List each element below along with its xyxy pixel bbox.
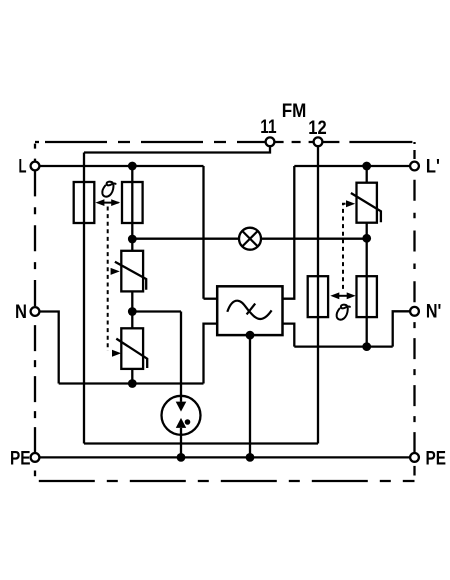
- thermal coupling dashed line right: [343, 204, 346, 292]
- varistor V1 stub bottom: [131, 291, 133, 311]
- thermal disconnect symbol left: theta label: [102, 182, 115, 197]
- fuse F2 body: [122, 182, 143, 223]
- varistor V2 diagonal stroke: [116, 339, 147, 368]
- terminal N': [410, 307, 419, 316]
- enclosure border left segment (PE to N): [34, 316, 36, 453]
- svg-text:L: L: [19, 157, 27, 178]
- fuse F4r through-line: [366, 276, 368, 317]
- wire vertical drop from L line to filter upper-left stub: [202, 166, 204, 299]
- enclosure border right segment (PE to bottom-right corner): [413, 466, 415, 476]
- varistor V1 body: [121, 251, 143, 292]
- wire from terminal 11 down and left to fuse F1: [84, 146, 270, 153]
- node junction dot on PE line at spark gap: [177, 453, 186, 462]
- wire lamp line from F2-bottom node to varistor VR node: [132, 238, 366, 240]
- wire fuse F1 feed down: [83, 153, 85, 183]
- wire fuse F4r bottom to N' rail: [366, 317, 368, 347]
- svg-text:N': N': [426, 302, 442, 323]
- wire riser from N rail up to filter lower-left stub: [204, 324, 218, 384]
- wire gas discharge tube bottom to PE line: [180, 435, 182, 458]
- svg-text:L': L': [426, 157, 440, 178]
- mains filter box: [217, 286, 282, 335]
- enclosure border right segment (N' to PE): [413, 316, 415, 453]
- enclosure border right segment (L' to N'): [413, 180, 415, 307]
- wire down to gas discharge tube top: [180, 312, 182, 396]
- node junction dot on L' wire at varistor VR: [362, 162, 371, 171]
- enclosure border bottom segment: [39, 480, 415, 482]
- wire F3 bottom riser: [317, 317, 319, 443]
- enclosure border top-left tick: [35, 141, 39, 143]
- wire N' input down to N' rail: [393, 311, 410, 346]
- thermal coupling dashed line left: [107, 207, 109, 352]
- terminal PE right: [410, 453, 419, 462]
- wire N' rail to filter lower-right riser: [294, 345, 392, 347]
- wire bottom rail from F1 to F3 (remote-contact loop): [84, 442, 318, 444]
- node junction dot on L wire at fuse F2: [128, 162, 137, 171]
- enclosure border top segment (terminal 12 to top-right corner): [322, 141, 414, 143]
- terminal L': [410, 162, 419, 171]
- wire filter upper-left stub: [204, 298, 218, 300]
- wire varistor VR node down to fuse F4r top: [366, 238, 368, 276]
- wire fuse F1 bottom down to PE-side rail: [83, 223, 85, 444]
- wire N rail to filter lower-left riser: [59, 382, 204, 384]
- enclosure border left segment (L to top-left corner): [34, 142, 36, 162]
- filter sine slash: [247, 304, 256, 315]
- thermal disconnect symbol right: theta label: [337, 305, 350, 320]
- varistor VR stub top: [366, 166, 368, 183]
- enclosure border top segment between terminals 11 and 12: [275, 141, 314, 143]
- varistor VR diagonal stroke: [351, 193, 381, 222]
- wire filter centre tap down to PE line: [249, 335, 251, 457]
- terminal PE left: [31, 453, 40, 462]
- terminal L: [31, 162, 40, 171]
- thermal coupling arrow into varistor V2: [112, 350, 121, 357]
- svg-text:12: 12: [308, 118, 326, 139]
- terminal 12: [314, 137, 323, 146]
- varistor VR stub bottom: [366, 223, 368, 239]
- varistor V2 stub top: [131, 312, 133, 329]
- svg-text:PE: PE: [426, 449, 447, 470]
- svg-text:FM: FM: [282, 101, 307, 122]
- fuse F2 through-line: [131, 182, 133, 223]
- svg-text:PE: PE: [10, 449, 31, 470]
- enclosure border top segment (corner to terminal 11): [45, 141, 266, 143]
- indicator lamp H1: [239, 228, 261, 250]
- wire L' input line to filter drop: [294, 165, 410, 167]
- wire fuse F2 bottom to lamp node: [131, 223, 133, 239]
- wire N input right and down to N rail: [39, 312, 58, 384]
- node junction dot below fuse F2: [128, 235, 137, 244]
- wire L input to node at x132 and over to filter drop: [39, 165, 203, 167]
- varistor V2 body: [121, 328, 143, 369]
- node junction dot between V1 and V2: [128, 307, 137, 316]
- wire riser from N' rail up to filter lower-right stub: [283, 324, 295, 347]
- node junction dot filter bottom centre: [246, 331, 255, 340]
- enclosure border left segment (bottom-left corner to PE): [34, 471, 36, 477]
- thermal disconnect double arrow between F3 and F4r: [330, 292, 355, 299]
- svg-text:N: N: [15, 302, 27, 323]
- varistor VR body: [357, 183, 377, 223]
- terminal N: [31, 307, 40, 316]
- thermal coupling arrow into varistor VR: [346, 200, 355, 207]
- varistor V2 stub bottom: [131, 369, 133, 384]
- gas discharge tube F4 (spark gap): [162, 396, 201, 435]
- fuse F4r body: [357, 276, 377, 317]
- node junction dot at V2 bottom / N rail: [128, 379, 137, 388]
- wire from V1/V2 node right to gas discharge tube: [132, 310, 181, 312]
- filter sine symbol: [227, 301, 271, 319]
- varistor V1 diagonal stroke: [115, 262, 146, 290]
- enclosure border right segment (corner to L'): [413, 142, 415, 162]
- node junction dot on N' rail at fuse F4r: [362, 342, 371, 351]
- svg-text:11: 11: [260, 117, 277, 138]
- fuse F2 feed from node on L wire: [131, 166, 133, 182]
- fuse F3 body: [308, 276, 328, 317]
- thermal disconnect double arrow between F1 and F2: [95, 199, 120, 206]
- node junction dot on PE line below filter: [246, 453, 255, 462]
- wire vertical drop from L' line to filter upper-right stub: [283, 166, 295, 299]
- fuse F1 body: [74, 182, 95, 223]
- fuse F1 through-line: [83, 182, 85, 223]
- wire F3 top up to terminal 12: [317, 146, 319, 276]
- fuse F3 through-line: [317, 276, 319, 317]
- node junction dot below varistor VR: [362, 234, 371, 243]
- terminal 11: [266, 137, 275, 146]
- wire PE bus: [39, 456, 410, 458]
- varistor V1 stub top: [131, 239, 133, 251]
- enclosure border left segment (N to L): [34, 170, 36, 307]
- thermal coupling arrow into varistor V1: [111, 268, 120, 275]
